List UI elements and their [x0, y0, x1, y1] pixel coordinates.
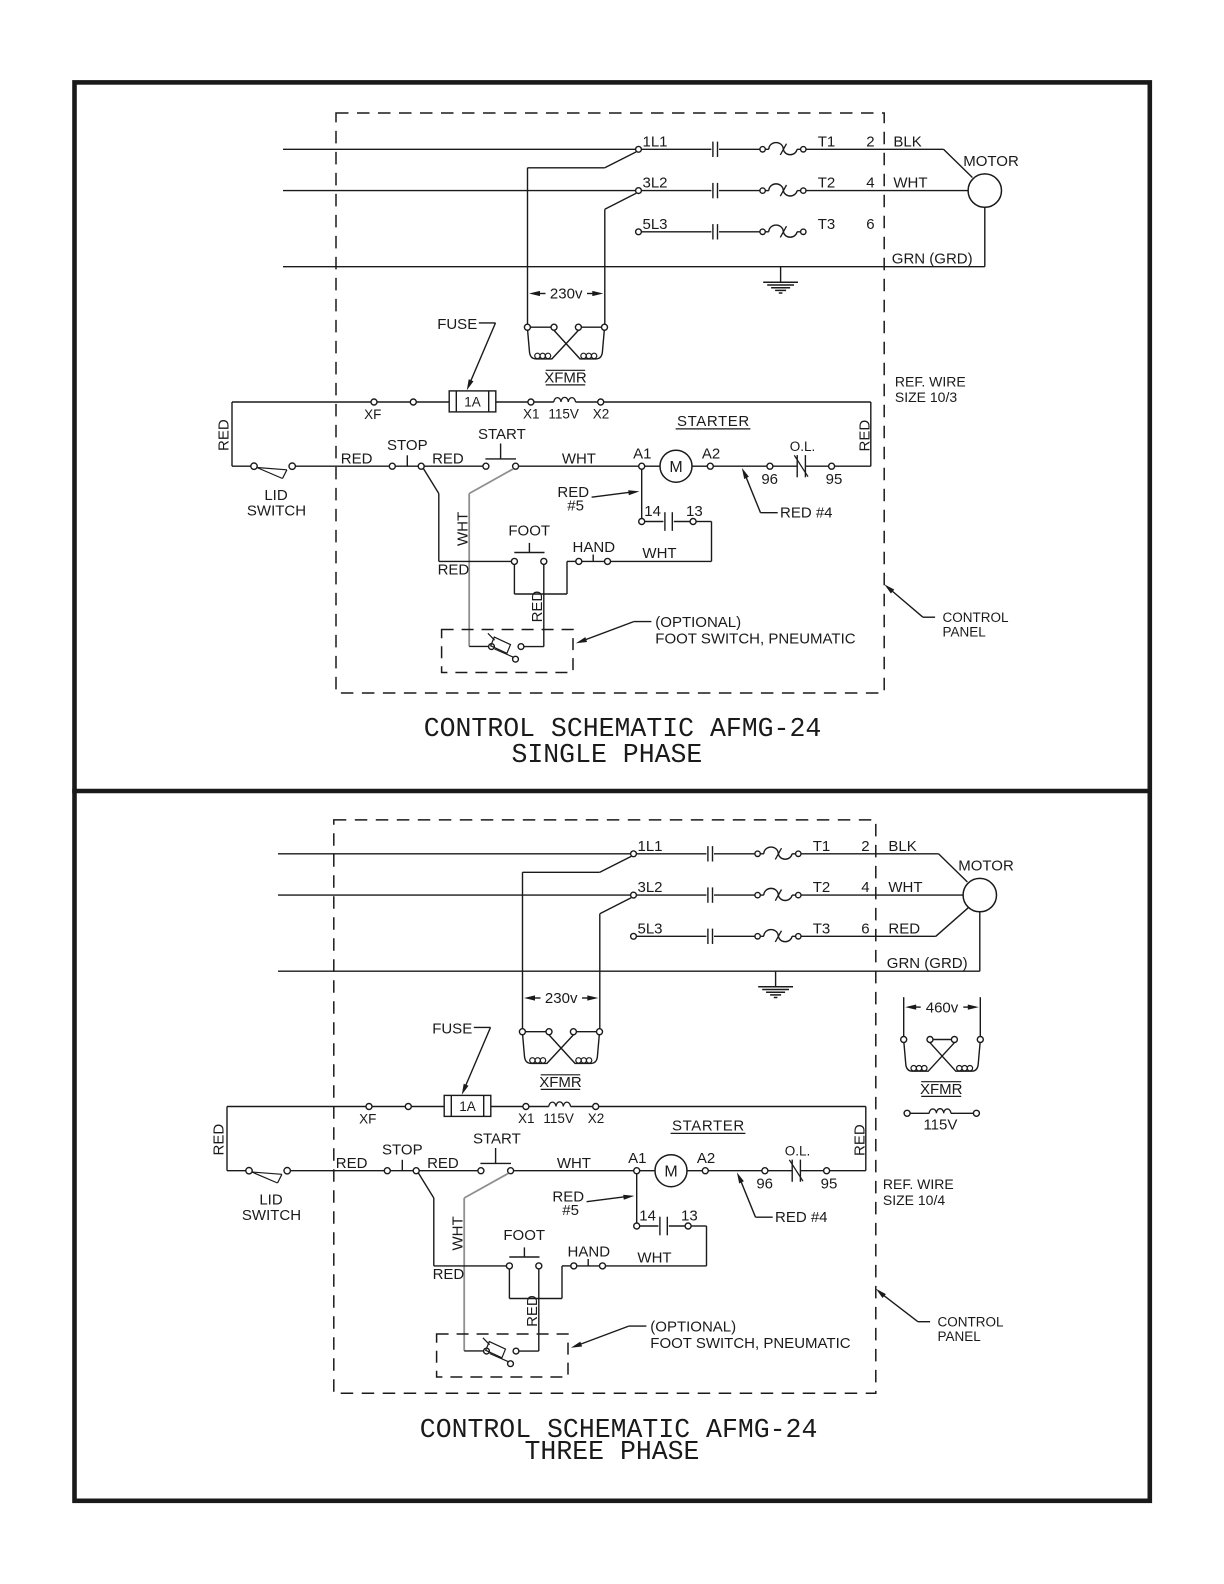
wire A2 to 96 [708, 1170, 762, 1172]
svg-text:5L3: 5L3 [643, 216, 668, 233]
wire 115V rail left [227, 1106, 366, 1108]
label RED #4 with leader arrow [742, 468, 749, 479]
svg-text:96: 96 [761, 471, 778, 488]
node 96 [767, 463, 773, 469]
svg-text:(OPTIONAL): (OPTIONAL) [650, 1319, 736, 1336]
svg-text:GRN (GRD): GRN (GRD) [892, 250, 973, 267]
svg-text:RED: RED [438, 561, 470, 578]
wire T1 to motor [806, 148, 943, 150]
wire A1 down to 14 [641, 469, 643, 518]
svg-text:X2: X2 [588, 1111, 605, 1126]
ground symbol [780, 267, 782, 283]
wire motor to ground [984, 207, 986, 266]
wire GRN (GRD) ground conductor [283, 266, 985, 268]
svg-text:115V: 115V [548, 406, 579, 421]
svg-text:STARTER: STARTER [677, 413, 750, 430]
control panel dashed border [336, 113, 884, 693]
pushbutton START (NO) [483, 463, 489, 469]
svg-text:X2: X2 [593, 406, 610, 421]
label RED right rail [856, 420, 873, 452]
wire motor to ground [979, 912, 981, 971]
wire L2 to contactor [641, 190, 711, 192]
svg-text:RED: RED [851, 1124, 868, 1156]
wire L2 contact to OL [719, 190, 760, 192]
pushbutton FOOT (NO) [506, 1263, 512, 1269]
svg-text:T2: T2 [818, 175, 836, 192]
starter coil M [660, 450, 692, 482]
wire L3 to contactor [641, 231, 711, 233]
transformer XFMR winding B [549, 1035, 599, 1064]
wire A1 to coil [640, 1170, 655, 1172]
contactor M contact L3 [712, 224, 714, 239]
svg-text:RED: RED [524, 1295, 541, 1327]
transformer XFMR-460 primary terminal H2 [927, 1037, 933, 1043]
overload heater L2 [760, 188, 765, 193]
svg-text:XFMR: XFMR [544, 369, 587, 386]
wire start to A1 [514, 1170, 634, 1172]
dimension 230v [524, 995, 535, 1000]
svg-text:M: M [664, 1163, 677, 1180]
svg-text:(OPTIONAL): (OPTIONAL) [655, 614, 741, 631]
transformer XFMR primary terminal H4 [597, 1029, 603, 1035]
contactor M contact L1 [712, 142, 714, 157]
pushbutton FOOT (NO) [511, 558, 517, 564]
svg-text:REF. WIRE: REF. WIRE [883, 1176, 954, 1192]
wire L2 to contactor [636, 894, 706, 896]
wire L3 contact to OL [719, 231, 760, 233]
wire stop to start [419, 1170, 478, 1172]
wire OL contact to 95 [805, 465, 828, 467]
svg-text:T2: T2 [813, 879, 831, 896]
transformer XFMR-460 winding B [930, 1043, 980, 1072]
svg-text:T3: T3 [818, 216, 836, 233]
label CONTROL PANEL with leader arrow [884, 584, 894, 593]
wire secondary coil to X2 [571, 1106, 593, 1108]
transformer XFMR secondary winding [554, 397, 576, 402]
wire A2 to 96 [713, 465, 767, 467]
wire terminal to fuse [411, 1106, 444, 1108]
svg-text:1A: 1A [459, 1099, 476, 1114]
wire supply L1 incoming [278, 853, 631, 855]
node 95 [829, 463, 835, 469]
label RED right rail [851, 1124, 868, 1156]
svg-text:1A: 1A [464, 395, 481, 410]
svg-text:XFMR: XFMR [539, 1074, 582, 1091]
terminal 3L2 [636, 188, 642, 194]
svg-text:START: START [473, 1130, 521, 1147]
svg-text:RED: RED [336, 1155, 368, 1172]
wire 14 to aux contact [640, 1225, 659, 1227]
single phase schematic panel [216, 113, 1019, 770]
overload heater L1 [755, 851, 760, 856]
svg-text:XFMR: XFMR [920, 1081, 963, 1098]
svg-text:#5: #5 [567, 498, 584, 515]
wire T3 to motor [801, 935, 936, 937]
three phase schematic panel [211, 820, 1014, 1467]
wire gray branch to pneumatic switch [464, 1350, 483, 1352]
wire secondary coil to X2 [576, 401, 598, 403]
svg-text:CONTROL: CONTROL [943, 610, 1009, 625]
wire bypass bridge [514, 593, 567, 595]
wire stop to start [424, 465, 483, 467]
terminal (fuse input) [410, 399, 416, 405]
svg-text:5L3: 5L3 [638, 920, 663, 937]
terminal X2 [593, 1104, 599, 1110]
wire aux contact to 13 [669, 1225, 685, 1227]
svg-text:3L2: 3L2 [643, 175, 668, 192]
wire XF to terminal [377, 401, 410, 403]
svg-text:M: M [669, 459, 682, 476]
wire GRN (GRD) ground conductor [278, 970, 980, 972]
svg-text:WHT: WHT [642, 545, 676, 562]
svg-text:FUSE: FUSE [432, 1021, 472, 1038]
wire bypass bridge [509, 1298, 562, 1300]
terminal XF [371, 399, 377, 405]
wire XFMR primary jumper 1 [530, 326, 551, 328]
svg-text:SWITCH: SWITCH [242, 1207, 301, 1224]
svg-text:MOTOR: MOTOR [963, 153, 1019, 170]
motor M1 [968, 174, 1001, 207]
wire 14 to aux contact [645, 521, 664, 523]
svg-text:REF. WIRE: REF. WIRE [895, 374, 966, 390]
svg-text:115V: 115V [543, 1111, 574, 1126]
pushbutton START (NO) [478, 1168, 484, 1174]
node 14 [634, 1223, 640, 1229]
svg-text:4: 4 [861, 879, 869, 896]
node 96 [762, 1168, 768, 1174]
node 95 [824, 1168, 830, 1174]
wire 95 to right rail [835, 465, 871, 467]
transformer XFMR primary terminal H1 [519, 1029, 525, 1035]
svg-text:FOOT: FOOT [508, 523, 550, 540]
wire 115V rail right [599, 1106, 866, 1108]
svg-text:460v: 460v [926, 1000, 959, 1017]
contactor M contact L2 [707, 887, 709, 902]
overload heater L3 [755, 934, 760, 939]
wire 95 to right rail [830, 1170, 866, 1172]
node 13 [690, 519, 696, 525]
svg-text:T1: T1 [813, 838, 831, 855]
svg-text:WHT: WHT [893, 175, 927, 192]
terminal 1L1 [631, 851, 637, 857]
transformer XFMR winding A [528, 330, 579, 359]
wire lid switch to stop [290, 1170, 384, 1172]
pneumatic foot switch [484, 1348, 490, 1354]
terminal 1L1 [636, 146, 642, 152]
control panel dashed border [334, 820, 876, 1393]
overload heater L3 [760, 229, 765, 234]
svg-text:RED: RED [211, 1124, 228, 1156]
svg-text:XF: XF [359, 1112, 376, 1127]
svg-text:RED #4: RED #4 [780, 504, 833, 521]
wire T2 to motor [801, 894, 963, 896]
terminal X1 [528, 399, 534, 405]
wire L1 contact to OL [714, 853, 755, 855]
wire 3L2 jog to transformer H4 [600, 898, 631, 914]
svg-text:BLK: BLK [893, 133, 921, 150]
wire rail to lid switch [232, 465, 251, 467]
svg-text:RED: RED [888, 920, 920, 937]
svg-text:CONTROL: CONTROL [938, 1315, 1004, 1330]
svg-text:STOP: STOP [382, 1141, 423, 1158]
label CONTROL PANEL with leader arrow [876, 1289, 886, 1298]
svg-text:LID: LID [264, 487, 288, 504]
svg-text:START: START [478, 426, 526, 443]
wire 13 down to WHT rail [691, 1225, 706, 1227]
wire 115V rail left [232, 401, 371, 403]
svg-text:2: 2 [866, 133, 874, 150]
wire right rail drop [865, 1107, 867, 1171]
wire 96 to OL contact [773, 465, 797, 467]
label XFMR [546, 369, 586, 371]
transformer 460v secondary [904, 1110, 910, 1116]
wire left rail drop [231, 402, 233, 466]
svg-text:O.L.: O.L. [790, 439, 816, 454]
svg-text:WHT: WHT [637, 1249, 671, 1266]
wire coil to A2 [687, 1170, 702, 1172]
svg-text:A2: A2 [702, 445, 720, 462]
svg-text:SIZE 10/3: SIZE 10/3 [895, 389, 957, 405]
svg-text:96: 96 [756, 1175, 773, 1192]
label WHT vertical [449, 1216, 466, 1250]
svg-text:14: 14 [639, 1208, 656, 1225]
terminal X2 [598, 399, 604, 405]
label XFMR [541, 1074, 581, 1076]
label RED vertical (foot drop) [529, 591, 546, 623]
svg-text:SWITCH: SWITCH [247, 503, 306, 520]
wire hand to 13 riser [611, 560, 712, 562]
wire pneumatic switch to RED drop [519, 1350, 539, 1352]
wire branch to foot switch [439, 560, 512, 562]
lid switch LS1 [251, 463, 257, 469]
wire coil to A2 [692, 465, 707, 467]
contactor M contact L3 [707, 929, 709, 944]
label XFMR (460v) [921, 1081, 961, 1083]
node 13 [685, 1223, 691, 1229]
lid switch LS1 [246, 1168, 252, 1174]
pneumatic foot switch [489, 644, 495, 650]
svg-text:2: 2 [861, 838, 869, 855]
wire lid switch to stop [295, 465, 389, 467]
fuse F1 1A [449, 391, 496, 412]
svg-text:X1: X1 [518, 1111, 535, 1126]
node A1 [634, 1168, 640, 1174]
svg-text:WHT: WHT [557, 1155, 591, 1172]
svg-text:RED: RED [427, 1155, 459, 1172]
transformer XFMR primary terminal H3 [575, 324, 581, 330]
wire right rail drop [870, 402, 872, 466]
contactor M contact L2 [712, 183, 714, 198]
svg-text:1L1: 1L1 [643, 133, 668, 150]
node A1 [639, 463, 645, 469]
svg-text:WHT: WHT [449, 1216, 466, 1250]
wire L1 contact to OL [719, 148, 760, 150]
transformer XFMR primary terminal H2 [546, 1029, 552, 1035]
overload heater L2 [755, 892, 760, 897]
svg-text:6: 6 [861, 920, 869, 937]
wire X1 to secondary coil [529, 1106, 549, 1108]
svg-text:SIZE 10/4: SIZE 10/4 [883, 1192, 945, 1208]
wire OL contact to 95 [800, 1170, 823, 1172]
svg-text:O.L.: O.L. [785, 1144, 811, 1159]
starter coil M [655, 1155, 687, 1187]
svg-text:WHT: WHT [454, 512, 471, 546]
svg-text:FOOT SWITCH, PNEUMATIC: FOOT SWITCH, PNEUMATIC [655, 631, 855, 648]
svg-text:T3: T3 [813, 920, 831, 937]
overload contact O.L. (NC) [796, 455, 798, 477]
label WHT vertical [454, 512, 471, 546]
svg-text:HAND: HAND [568, 1244, 611, 1261]
wire supply L2 incoming [283, 190, 636, 192]
svg-text:PANEL: PANEL [938, 1329, 982, 1344]
wire X1 to secondary coil [534, 401, 554, 403]
wire L3 contact to OL [714, 935, 755, 937]
svg-text:230v: 230v [550, 286, 583, 303]
svg-text:A2: A2 [697, 1150, 715, 1167]
wire start to A1 [519, 465, 639, 467]
svg-text:6: 6 [866, 216, 874, 233]
terminal XF [366, 1104, 372, 1110]
transformer XFMR winding A [523, 1035, 574, 1064]
wire XFMR primary jumper 2 [576, 1031, 596, 1033]
optional foot switch dashed box [437, 1334, 568, 1377]
optional foot switch dashed box [442, 630, 573, 673]
wire stop branch down [423, 468, 439, 493]
label RED #4 with leader arrow [737, 1172, 744, 1183]
svg-text:#5: #5 [562, 1202, 579, 1219]
wire T1 to motor [801, 853, 938, 855]
wire 96 to OL contact [768, 1170, 792, 1172]
svg-text:LID: LID [259, 1192, 283, 1209]
wire 115V rail right [604, 401, 871, 403]
terminal 3L2 [631, 892, 637, 898]
transformer XFMR-460 primary terminal H4 [977, 1037, 983, 1043]
dimension 230v [529, 291, 540, 296]
wire gray branch to pneumatic switch [469, 645, 488, 647]
wire 1L1 jog to transformer H1 [600, 856, 631, 872]
svg-text:T1: T1 [818, 133, 836, 150]
wire 3L2 jog to transformer H4 [605, 193, 636, 209]
label RED left rail [216, 419, 233, 451]
svg-text:GRN (GRD): GRN (GRD) [887, 955, 968, 972]
svg-text:MOTOR: MOTOR [958, 858, 1014, 875]
wire stop branch down [418, 1173, 434, 1198]
wire supply L2 incoming [278, 894, 631, 896]
svg-text:A1: A1 [633, 445, 651, 462]
wire fuse to X1 [491, 1106, 523, 1108]
svg-text:FOOT SWITCH, PNEUMATIC: FOOT SWITCH, PNEUMATIC [650, 1335, 850, 1352]
svg-text:4: 4 [866, 175, 874, 192]
transformer XFMR primary terminal H1 [524, 324, 530, 330]
svg-text:THREE PHASE: THREE PHASE [525, 1437, 700, 1467]
ground symbol [775, 971, 777, 987]
terminal 5L3 [631, 933, 637, 939]
pushbutton HAND (NC) [571, 1263, 577, 1269]
wire T2 to motor [806, 190, 968, 192]
svg-text:RED: RED [856, 420, 873, 452]
svg-text:14: 14 [644, 503, 661, 520]
wire foot left drop [513, 564, 515, 594]
svg-text:X1: X1 [523, 406, 540, 421]
svg-text:115V: 115V [923, 1116, 957, 1133]
svg-text:XF: XF [364, 407, 381, 422]
wire left rail drop [226, 1107, 228, 1171]
overload heater L1 [760, 147, 765, 152]
wire foot right drop (RED) [543, 564, 545, 646]
svg-text:13: 13 [686, 503, 703, 520]
wire supply L1 incoming [283, 148, 636, 150]
svg-text:3L2: 3L2 [638, 879, 663, 896]
wire XFMR primary jumper 1 [525, 1031, 546, 1033]
dimension 460v [905, 1005, 916, 1010]
pushbutton STOP (NC) [389, 463, 395, 469]
wire fuse to X1 [496, 401, 528, 403]
wire pneumatic switch to RED drop [524, 646, 544, 648]
wire XFMR primary jumper 2 [581, 326, 601, 328]
svg-text:STARTER: STARTER [672, 1118, 745, 1135]
wire rail to lid switch [227, 1170, 246, 1172]
wire foot right drop (RED) [538, 1269, 540, 1351]
node A2 [702, 1168, 708, 1174]
transformer XFMR primary terminal H2 [551, 324, 557, 330]
label RED vertical (foot drop) [524, 1295, 541, 1327]
wire L2 contact to OL [714, 894, 755, 896]
auxiliary contact M 13-14 [659, 1217, 661, 1236]
wire 460v dimension tick right [979, 997, 981, 1036]
wire 460v dimension tick left [903, 997, 905, 1036]
svg-text:95: 95 [821, 1175, 838, 1192]
wire A1 to coil [645, 465, 660, 467]
wire XFMR-460 primary jumper 1 [933, 1039, 951, 1041]
svg-text:RED: RED [529, 591, 546, 623]
wire terminal to fuse [416, 401, 449, 403]
svg-text:RED #4: RED #4 [775, 1209, 828, 1226]
svg-text:FOOT: FOOT [503, 1227, 545, 1244]
svg-text:SINGLE PHASE: SINGLE PHASE [511, 740, 702, 770]
node 14 [639, 519, 645, 525]
wire L1 to contactor [636, 853, 706, 855]
wire branch to foot switch [434, 1265, 507, 1267]
overload contact O.L. (NC) [791, 1160, 793, 1182]
label RED left rail [211, 1124, 228, 1156]
pushbutton STOP (NC) [384, 1168, 390, 1174]
svg-text:RED: RED [432, 450, 464, 467]
svg-text:HAND: HAND [573, 539, 616, 556]
svg-text:WHT: WHT [888, 879, 922, 896]
wire XF to terminal [372, 1106, 405, 1108]
svg-text:STOP: STOP [387, 437, 428, 454]
svg-text:RED: RED [433, 1266, 465, 1283]
transformer XFMR primary terminal H3 [570, 1029, 576, 1035]
wire L1 to contactor [641, 148, 711, 150]
wire L3 to contactor [636, 935, 706, 937]
terminal 5L3 [636, 229, 642, 235]
svg-text:PANEL: PANEL [943, 624, 987, 639]
wire A1 down to 14 [636, 1174, 638, 1223]
transformer XFMR winding B [554, 330, 604, 359]
svg-text:230v: 230v [545, 990, 578, 1007]
motor M1 [963, 878, 996, 911]
svg-text:FUSE: FUSE [437, 316, 477, 333]
transformer XFMR-460 winding A [904, 1043, 955, 1072]
terminal X1 [523, 1104, 529, 1110]
wire 13 down to WHT rail [696, 521, 711, 523]
transformer XFMR-460 primary terminal H1 [901, 1037, 907, 1043]
svg-text:A1: A1 [628, 1150, 646, 1167]
auxiliary contact M 13-14 [664, 512, 666, 531]
svg-text:95: 95 [826, 471, 843, 488]
wire start branch down (gray) [469, 469, 513, 494]
